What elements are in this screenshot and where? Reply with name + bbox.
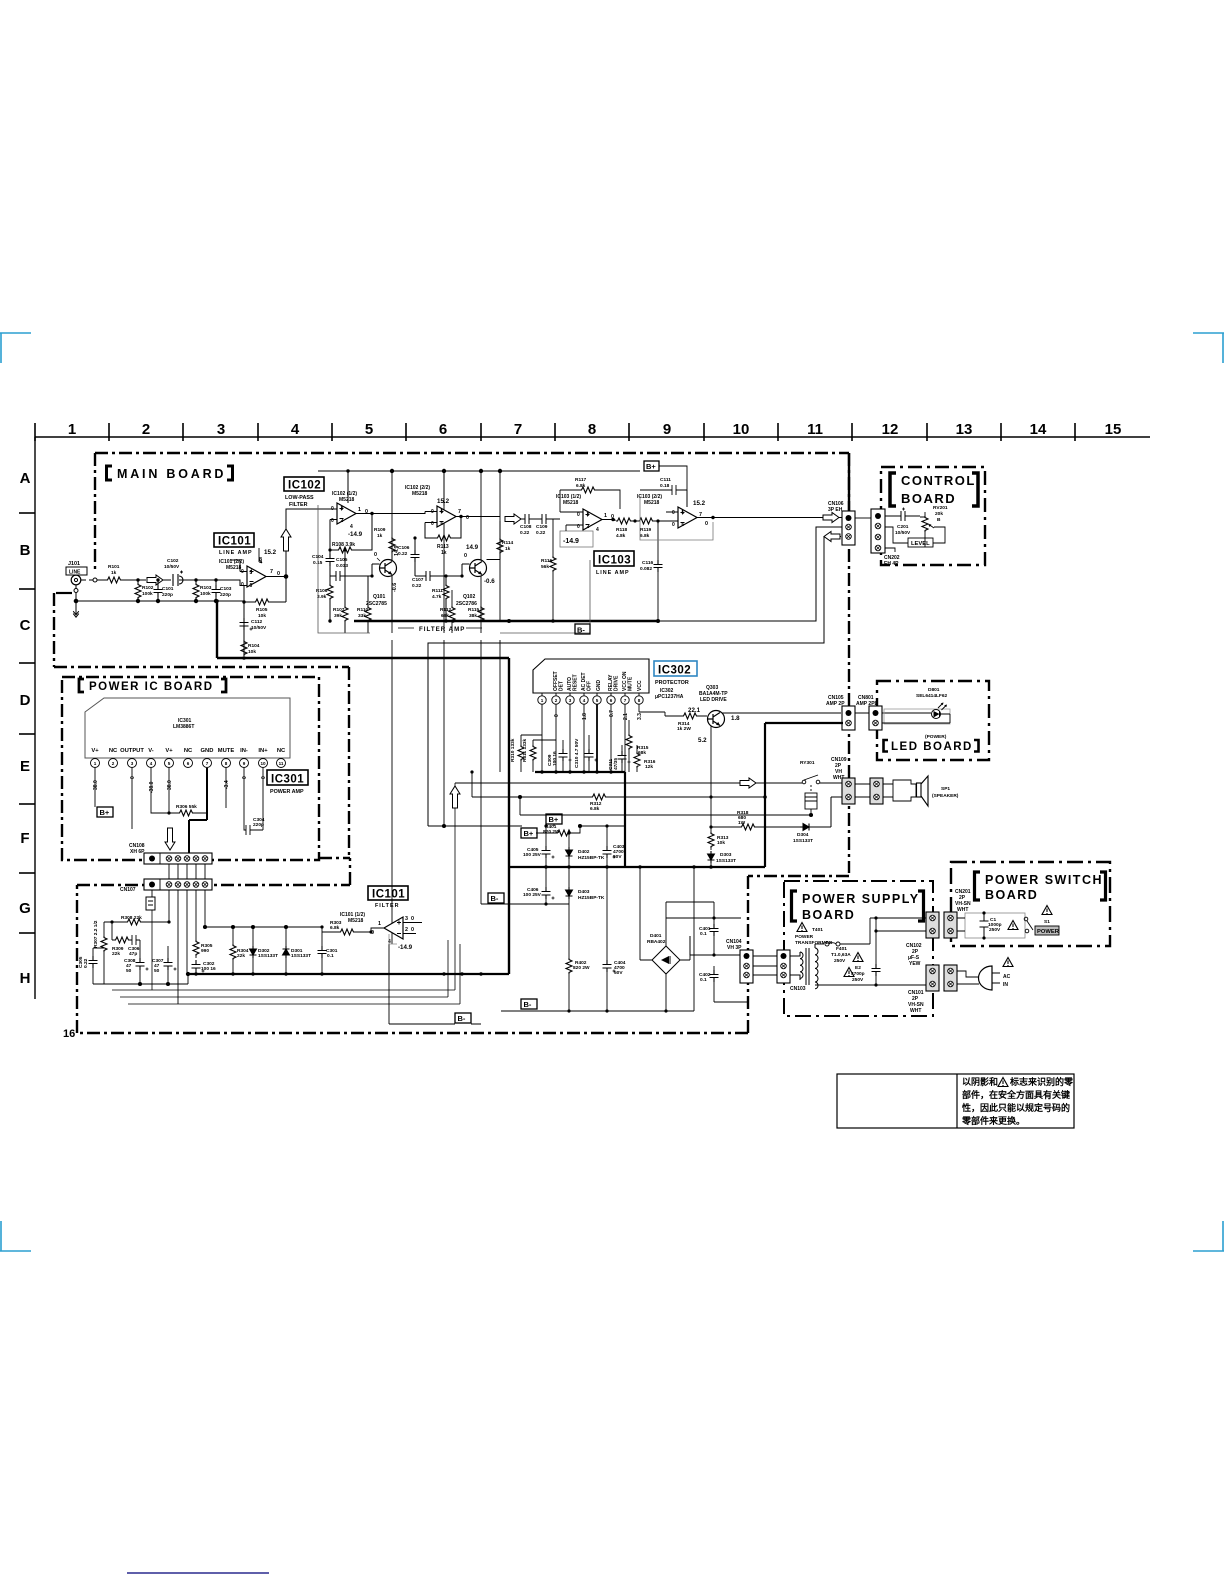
B- line lower xyxy=(501,867,694,1011)
svg-text:B: B xyxy=(937,517,941,523)
svg-text:38.0: 38.0 xyxy=(93,780,99,790)
op-amp IC103 (1/2) xyxy=(556,494,615,533)
svg-text:LED DRIVE: LED DRIVE xyxy=(700,697,727,703)
svg-text:0: 0 xyxy=(464,553,467,559)
svg-text:V-: V- xyxy=(148,748,154,754)
arrow down to CN108 xyxy=(165,828,175,850)
svg-text:POWER: POWER xyxy=(1037,929,1060,935)
svg-text:5.2: 5.2 xyxy=(698,737,707,744)
svg-text:0: 0 xyxy=(577,512,580,518)
pin8 wire xyxy=(225,768,227,808)
svg-text:100k: 100k xyxy=(200,591,211,597)
svg-text:R117: R117 xyxy=(575,477,587,483)
svg-text:AC: AC xyxy=(1003,974,1011,980)
connector CN109 xyxy=(831,757,855,804)
svg-text:0.033: 0.033 xyxy=(336,563,348,569)
svg-text:820 2W: 820 2W xyxy=(573,965,590,971)
svg-text:B-: B- xyxy=(491,894,499,903)
svg-text:D304: D304 xyxy=(797,832,809,838)
capacitor C311 xyxy=(608,745,631,772)
svg-text:以阴影和: 以阴影和 xyxy=(962,1076,998,1087)
svg-text:12k: 12k xyxy=(645,764,653,770)
svg-text:0: 0 xyxy=(411,916,414,922)
connector CN102 xyxy=(906,912,939,967)
svg-text:C108: C108 xyxy=(520,524,532,530)
resistor R318 xyxy=(711,810,800,830)
connector AC side xyxy=(944,965,957,991)
ground bus thick xyxy=(217,601,509,974)
svg-text:部件，在安全方面具有关键: 部件，在安全方面具有关键 xyxy=(962,1089,1071,1100)
svg-text:22k: 22k xyxy=(237,953,245,959)
svg-text:C: C xyxy=(20,617,31,634)
connector CN101 xyxy=(908,965,939,1014)
resistor R119 xyxy=(638,518,678,539)
IC302 blue label xyxy=(654,661,697,700)
svg-text:C109: C109 xyxy=(536,524,548,530)
svg-text:R102: R102 xyxy=(142,585,154,591)
resistor R312 xyxy=(470,770,766,812)
svg-text:LED BOARD: LED BOARD xyxy=(891,741,973,753)
capacitor C101 xyxy=(154,578,174,601)
svg-text:EH 4P: EH 4P xyxy=(884,561,899,567)
svg-text:R101: R101 xyxy=(108,564,120,570)
svg-text:C310 4.7 50V: C310 4.7 50V xyxy=(574,738,580,768)
svg-text:B+: B+ xyxy=(524,829,534,838)
svg-text:标志来识别的零: 标志来识别的零 xyxy=(1009,1076,1074,1087)
resistor R311 xyxy=(522,738,556,772)
resistor R314 xyxy=(639,712,707,732)
svg-text:0: 0 xyxy=(672,522,675,528)
svg-text:R108 3.9k: R108 3.9k xyxy=(332,542,355,548)
wire stage1 to stage2 xyxy=(376,512,425,514)
svg-text:15.2: 15.2 xyxy=(264,549,277,556)
svg-text:0: 0 xyxy=(331,506,334,512)
IC301 pins xyxy=(91,759,286,768)
B- box at C406 xyxy=(488,893,569,904)
board outline CONTROL BOARD xyxy=(881,467,985,565)
resistor R118 xyxy=(615,518,638,539)
svg-text:DET: DET xyxy=(559,681,565,691)
svg-text:A: A xyxy=(20,470,31,487)
svg-text:0.1: 0.1 xyxy=(700,931,707,937)
svg-text:POWER SUPPLY: POWER SUPPLY xyxy=(802,892,920,906)
svg-text:10: 10 xyxy=(260,761,266,766)
svg-text:3: 3 xyxy=(587,512,590,518)
svg-text:0: 0 xyxy=(554,714,560,717)
svg-text:-3.4: -3.4 xyxy=(224,780,230,789)
svg-text:6.8k: 6.8k xyxy=(640,533,650,539)
resistor R107 xyxy=(333,548,348,633)
svg-text:R104: R104 xyxy=(248,643,260,649)
capacitor C112 xyxy=(240,618,268,631)
resistor R308 xyxy=(104,915,171,925)
svg-text:38k: 38k xyxy=(469,613,477,619)
svg-text:D401: D401 xyxy=(650,933,662,939)
svg-text:0.1: 0.1 xyxy=(700,977,707,983)
svg-text:2SC2786: 2SC2786 xyxy=(456,601,477,607)
svg-text:50: 50 xyxy=(154,968,160,974)
resistor R305 xyxy=(193,940,213,958)
svg-text:0.1: 0.1 xyxy=(327,953,334,959)
main board right border solid segment xyxy=(848,453,850,511)
svg-text:C116: C116 xyxy=(642,560,654,566)
svg-text:2: 2 xyxy=(112,761,115,766)
IC301 label xyxy=(267,770,308,795)
feedback resistor R105 xyxy=(242,577,286,655)
svg-text:0: 0 xyxy=(431,521,434,527)
svg-text:R109: R109 xyxy=(374,527,386,533)
pin voltages rotated xyxy=(93,776,267,793)
svg-text:M5218: M5218 xyxy=(339,497,355,503)
capacitor C103 xyxy=(212,578,232,601)
svg-text:6: 6 xyxy=(439,421,447,438)
svg-text:250V: 250V xyxy=(852,977,864,983)
svg-text:1k: 1k xyxy=(377,533,383,539)
svg-text:IC102: IC102 xyxy=(288,480,321,492)
svg-text:IC101: IC101 xyxy=(372,889,405,901)
svg-text:-14.9: -14.9 xyxy=(563,538,579,545)
svg-text:C106: C106 xyxy=(398,545,410,551)
svg-text:(POWER): (POWER) xyxy=(925,734,947,740)
diode D303 xyxy=(708,851,737,869)
svg-text:TRANSFORMER: TRANSFORMER xyxy=(795,940,833,946)
svg-text:HZ15BP-TK: HZ15BP-TK xyxy=(578,855,605,861)
board outline POWER SWITCH BOARD xyxy=(951,862,1110,946)
diode D301 xyxy=(283,927,312,976)
resistor R109 xyxy=(374,527,395,621)
svg-text:1: 1 xyxy=(68,421,76,438)
connector CN202 xyxy=(871,509,900,567)
svg-text:FILTER: FILTER xyxy=(289,502,308,508)
svg-text:M5218: M5218 xyxy=(226,565,242,571)
IC302 chip body xyxy=(533,659,649,693)
svg-text:10/50V: 10/50V xyxy=(164,564,180,570)
svg-text:8: 8 xyxy=(225,761,228,766)
svg-text:B-: B- xyxy=(524,1000,532,1009)
svg-text:LEVEL: LEVEL xyxy=(911,541,930,547)
svg-text:220p: 220p xyxy=(220,592,231,598)
svg-text:6: 6 xyxy=(441,521,444,527)
resistor R306 xyxy=(151,768,207,820)
svg-text:16: 16 xyxy=(63,1028,75,1040)
connector CN105 xyxy=(826,695,855,730)
capacitor C405 xyxy=(523,824,555,868)
connector SP side xyxy=(870,778,883,804)
svg-text:D303: D303 xyxy=(720,852,732,858)
svg-text:56k: 56k xyxy=(541,564,549,570)
resistor R108 xyxy=(330,514,372,554)
svg-text:C201: C201 xyxy=(897,524,909,530)
svg-text:10k: 10k xyxy=(258,613,266,619)
svg-text:10/50V: 10/50V xyxy=(251,625,267,631)
B- box lower xyxy=(521,999,537,1009)
transistor Q303 xyxy=(688,685,740,744)
capacitor C401 xyxy=(666,902,741,955)
svg-text:1: 1 xyxy=(358,507,361,513)
svg-text:CN103: CN103 xyxy=(790,986,806,992)
svg-text:100 16: 100 16 xyxy=(552,751,558,766)
capacitor C108 xyxy=(520,514,538,536)
svg-text:E2: E2 xyxy=(855,965,861,971)
pin3 wire xyxy=(131,768,133,829)
svg-text:WHT: WHT xyxy=(957,907,968,913)
CN108-CN107 links xyxy=(169,864,205,1004)
signal to IC102 xyxy=(286,509,337,577)
resistor R304 xyxy=(230,927,249,976)
svg-text:1k: 1k xyxy=(111,570,117,576)
svg-text:POWER SWITCH: POWER SWITCH xyxy=(985,873,1103,887)
svg-text:R119: R119 xyxy=(640,527,652,533)
svg-text:WHT: WHT xyxy=(910,1008,921,1014)
capacitor C301 xyxy=(318,925,338,975)
svg-text:C102: C102 xyxy=(167,558,179,564)
connector CN201 xyxy=(944,889,971,938)
svg-text:G: G xyxy=(19,900,31,917)
svg-text:E: E xyxy=(20,758,30,775)
svg-text:220p: 220p xyxy=(253,822,264,828)
svg-text:3: 3 xyxy=(131,761,134,766)
svg-text:B+: B+ xyxy=(549,815,559,824)
CN104-CN103 wires xyxy=(753,956,777,975)
svg-text:OUTPUT: OUTPUT xyxy=(120,748,144,754)
svg-text:3: 3 xyxy=(405,916,408,922)
IC302 pins xyxy=(538,693,643,704)
wire bus to CN106 pin2 xyxy=(658,527,843,621)
svg-text:B: B xyxy=(20,542,31,559)
svg-text:BOARD: BOARD xyxy=(901,491,956,506)
capacitor C107 xyxy=(412,571,446,589)
svg-text:-38.0: -38.0 xyxy=(149,781,155,793)
B+ box lower xyxy=(521,828,537,838)
svg-text:SP1: SP1 xyxy=(941,786,950,792)
svg-text:F401: F401 xyxy=(836,946,847,952)
svg-text:Q101: Q101 xyxy=(373,594,385,600)
svg-text:B+: B+ xyxy=(100,808,110,817)
svg-text:7: 7 xyxy=(206,761,209,766)
capacitor C305 xyxy=(78,948,104,984)
svg-text:IC301: IC301 xyxy=(271,774,304,786)
svg-text:15.2: 15.2 xyxy=(437,498,450,505)
svg-text:VCC: VCC xyxy=(637,680,643,691)
LED D801 xyxy=(855,687,950,740)
svg-text:1SS133T: 1SS133T xyxy=(258,953,278,959)
svg-text:PROTECTOR: PROTECTOR xyxy=(655,680,689,686)
svg-text:6: 6 xyxy=(682,522,685,528)
capacitor C402 xyxy=(699,953,748,1002)
svg-text:9: 9 xyxy=(663,421,671,438)
svg-text:GND: GND xyxy=(596,680,602,692)
svg-text:1SS133T: 1SS133T xyxy=(291,953,311,959)
svg-text:0.082: 0.082 xyxy=(640,566,652,572)
svg-text:10: 10 xyxy=(733,421,750,438)
ground return wire xyxy=(74,585,244,603)
svg-text:0: 0 xyxy=(261,776,267,779)
CN109 pin2 return xyxy=(831,797,842,827)
resistor R116 xyxy=(541,519,556,621)
svg-text:NC: NC xyxy=(184,748,193,754)
svg-text:10k: 10k xyxy=(248,649,256,655)
svg-text:15.2: 15.2 xyxy=(693,500,706,507)
capacitor C309 xyxy=(547,740,572,772)
resistor R114 xyxy=(487,521,514,560)
svg-text:POWER IC BOARD: POWER IC BOARD xyxy=(89,681,214,693)
LEVEL label xyxy=(908,538,933,547)
svg-text:7: 7 xyxy=(270,569,273,575)
connector CN107 xyxy=(120,879,212,893)
pin voltages xyxy=(554,710,643,720)
capacitor C102 xyxy=(164,558,221,586)
feedback loop box IC103(2/2) xyxy=(640,496,713,540)
fuse F401 xyxy=(815,918,927,964)
filter amp enclosure + caption xyxy=(318,505,590,633)
resistor R307 xyxy=(93,920,107,984)
pot RV201 xyxy=(885,505,948,552)
arrow up at CN107 column xyxy=(450,786,460,808)
svg-text:10k: 10k xyxy=(717,840,725,846)
resistor R103 xyxy=(193,578,212,601)
connector CN801 xyxy=(856,695,882,730)
svg-text:5: 5 xyxy=(596,698,599,703)
board outline MAIN BOARD xyxy=(54,453,849,1033)
svg-text:0: 0 xyxy=(705,521,708,527)
svg-text:性，因此只能以规定号码的: 性，因此只能以规定号码的 xyxy=(962,1102,1070,1113)
svg-text:R306 55k: R306 55k xyxy=(176,804,197,810)
board outline POWER IC BOARD xyxy=(62,667,349,860)
svg-text:5: 5 xyxy=(168,761,171,766)
svg-text:7: 7 xyxy=(624,698,627,703)
svg-text:C112: C112 xyxy=(251,619,263,625)
long vertical wires xyxy=(392,471,546,944)
svg-text:R311 133k: R311 133k xyxy=(522,738,528,762)
svg-text:C105: C105 xyxy=(336,557,348,563)
wire xyxy=(163,579,171,581)
ground xyxy=(73,603,79,617)
svg-text:S1: S1 xyxy=(1044,919,1050,925)
svg-text:6.8k: 6.8k xyxy=(576,483,586,489)
svg-text:4.8k: 4.8k xyxy=(616,533,626,539)
svg-text:零部件来更换。: 零部件来更换。 xyxy=(961,1115,1025,1126)
svg-text:R111: R111 xyxy=(432,588,443,594)
svg-text:POWER: POWER xyxy=(795,934,814,940)
switch S1 xyxy=(1024,917,1028,921)
svg-text:0: 0 xyxy=(466,515,469,521)
svg-text:0: 0 xyxy=(331,518,334,524)
svg-text:250V: 250V xyxy=(989,927,1001,933)
resistor R310 xyxy=(510,735,542,772)
svg-text:5: 5 xyxy=(682,510,685,516)
svg-text:11: 11 xyxy=(807,421,823,438)
svg-text:-0.6: -0.6 xyxy=(484,578,495,585)
svg-text:4700p: 4700p xyxy=(851,971,865,977)
svg-text:8: 8 xyxy=(638,698,641,703)
svg-text:22k: 22k xyxy=(112,951,120,957)
transformer T401 xyxy=(790,923,876,989)
svg-text:LINE AMP: LINE AMP xyxy=(219,550,253,556)
svg-text:2: 2 xyxy=(142,421,150,438)
op-amp IC102 (1/2) xyxy=(330,469,376,538)
svg-text:IC103: IC103 xyxy=(598,555,631,567)
resistor R113 xyxy=(425,517,461,557)
crop mark top-left xyxy=(0,333,31,363)
zener D403 xyxy=(566,867,605,904)
svg-text:M5218: M5218 xyxy=(412,491,428,497)
note box bottom xyxy=(837,1074,1074,1128)
svg-text:20k: 20k xyxy=(935,511,943,517)
IC102 label xyxy=(284,477,324,508)
speaker signal line xyxy=(455,782,843,784)
svg-text:RBA402: RBA402 xyxy=(647,939,666,945)
transistor Q101 xyxy=(356,546,400,608)
svg-text:POWER AMP: POWER AMP xyxy=(270,789,304,795)
svg-text:1SS133T: 1SS133T xyxy=(716,858,736,864)
svg-text:IN: IN xyxy=(1003,982,1008,988)
svg-text:B-: B- xyxy=(458,1014,466,1023)
bottom blue rule xyxy=(127,1572,269,1574)
svg-text:6: 6 xyxy=(610,698,613,703)
svg-text:M5218: M5218 xyxy=(348,918,364,924)
svg-text:D801: D801 xyxy=(928,687,940,693)
resistor R313 xyxy=(708,825,729,850)
svg-text:μPC1237HA: μPC1237HA xyxy=(655,694,684,700)
pin wires down to rail xyxy=(542,704,639,772)
svg-text:RV201: RV201 xyxy=(933,505,948,511)
svg-text:LOW-PASS: LOW-PASS xyxy=(285,495,314,501)
svg-text:4.7k: 4.7k xyxy=(432,594,442,600)
grid ruler left xyxy=(19,437,35,999)
svg-text:D: D xyxy=(20,692,31,709)
speaker SP1 xyxy=(855,776,959,806)
svg-text:7: 7 xyxy=(514,421,522,438)
thick gnd pin7 xyxy=(189,768,207,853)
svg-text:0.7: 0.7 xyxy=(609,710,615,717)
lower rail y=984 xyxy=(93,972,190,985)
svg-text:6: 6 xyxy=(187,761,190,766)
svg-text:1k 2W: 1k 2W xyxy=(677,726,691,732)
svg-text:2: 2 xyxy=(341,518,344,524)
resistor R117 top xyxy=(560,477,620,512)
resistor R101 xyxy=(106,564,146,583)
svg-text:R115: R115 xyxy=(468,607,480,613)
svg-text:14: 14 xyxy=(1030,421,1047,438)
wire y=927 xyxy=(203,925,322,928)
connector CN106 xyxy=(828,501,855,545)
svg-text:68k: 68k xyxy=(441,613,449,619)
svg-text:0: 0 xyxy=(242,776,248,779)
capacitor C1 xyxy=(980,913,989,938)
svg-text:LINE: LINE xyxy=(69,570,81,576)
svg-text:100 25V: 100 25V xyxy=(523,892,542,898)
svg-text:DRIVE: DRIVE xyxy=(614,675,620,691)
svg-text:12: 12 xyxy=(882,421,899,438)
B+ label top xyxy=(644,461,687,507)
svg-text:-14.9: -14.9 xyxy=(348,531,363,538)
IC301 chip body xyxy=(85,698,290,758)
svg-text:BOARD: BOARD xyxy=(985,888,1038,902)
crop mark top-right xyxy=(1193,333,1224,363)
svg-text:RY301: RY301 xyxy=(800,760,815,766)
svg-text:FILTER AMP: FILTER AMP xyxy=(419,626,465,633)
arrow to CN106 xyxy=(823,513,839,523)
Q303 wires xyxy=(711,713,841,827)
diode D302 xyxy=(250,927,279,976)
wire CN106 pin3 loop xyxy=(428,537,824,827)
main board label xyxy=(107,466,233,481)
IC101 filter label xyxy=(340,886,408,924)
crop mark bottom-left xyxy=(0,1221,31,1251)
arrow xyxy=(147,575,163,585)
svg-text:5: 5 xyxy=(250,570,253,576)
svg-text:2: 2 xyxy=(587,524,590,530)
